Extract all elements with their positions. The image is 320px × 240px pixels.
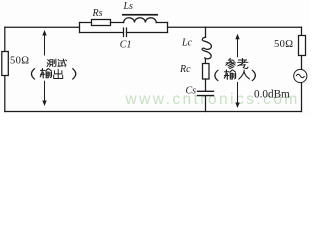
wire bottom [5, 111, 302, 113]
wire bottom rail right [127, 32, 168, 34]
wire left vertical lower [4, 76, 6, 112]
svg-text:C1: C1 [120, 40, 132, 51]
inductor Ls core bar [122, 14, 158, 16]
svg-text:50Ω: 50Ω [10, 55, 30, 66]
resistor 50ohm right [299, 36, 306, 56]
parallel block left edge [79, 23, 81, 33]
wire top left [5, 26, 80, 28]
svg-text:Lc: Lc [181, 38, 193, 49]
char 入 [239, 70, 250, 79]
inductor Ls [124, 18, 157, 23]
hand drawn CJK: 测试 (输出) 参考 (输入) [31, 58, 255, 80]
inductor Lc [202, 37, 211, 59]
char 输 [40, 69, 51, 79]
svg-text:Ls: Ls [123, 1, 134, 12]
char 试 [58, 59, 67, 67]
wire top rail left [80, 22, 92, 24]
capacitor C1 [124, 28, 127, 37]
parallel block right edge [167, 23, 169, 33]
svg-text:0.0dBm: 0.0dBm [254, 88, 290, 100]
resistor Rc [203, 64, 210, 80]
char 考 [238, 59, 248, 69]
wire top rail right [156, 22, 167, 24]
wire bottom rail left [80, 32, 124, 34]
wire right vertical upper [301, 27, 303, 35]
wire right vertical middle [301, 56, 303, 70]
source AC circle [294, 69, 307, 82]
char 出 [54, 69, 63, 78]
svg-text:Rs: Rs [92, 8, 103, 19]
char （ [31, 69, 34, 80]
char ） right [252, 70, 255, 81]
svg-text:Cs: Cs [186, 86, 197, 97]
wire left vertical upper [4, 27, 6, 51]
wire Lc to Rc [204, 58, 207, 64]
char 输 right [224, 70, 235, 80]
wire Rc to Cs [205, 79, 207, 91]
arrow left (double headed) [42, 30, 46, 106]
char ） [73, 69, 76, 80]
svg-text:Rc: Rc [179, 64, 191, 75]
wire top right [168, 26, 302, 28]
wire Cs to bottom [205, 96, 207, 112]
resistor Rs [92, 20, 111, 26]
wire top rail mid [111, 22, 124, 24]
char 测 [47, 59, 56, 66]
wire right vertical lower [301, 83, 303, 112]
capacitor Cs [198, 91, 214, 95]
resistor 50ohm left [2, 52, 9, 76]
char （ right [215, 70, 218, 81]
arrow right (double headed) [235, 34, 239, 108]
svg-text:50Ω: 50Ω [274, 39, 294, 50]
wire Lc branch top [205, 27, 207, 37]
char 参 [226, 58, 236, 68]
